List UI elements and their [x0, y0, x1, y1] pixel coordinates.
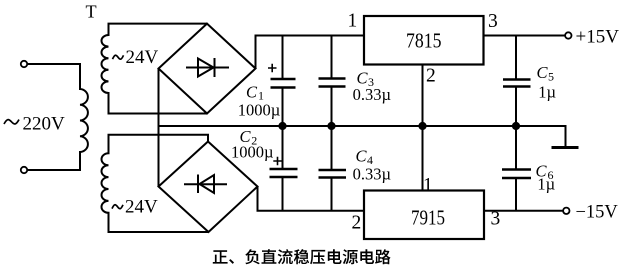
svg-text:1000µ: 1000µ [238, 101, 281, 120]
svg-text:24V: 24V [126, 47, 159, 68]
svg-text:1µ: 1µ [537, 175, 555, 194]
svg-text:+15V: +15V [576, 27, 620, 48]
svg-text:C: C [537, 63, 549, 82]
svg-text:1000µ: 1000µ [231, 143, 274, 162]
svg-text:2: 2 [352, 213, 362, 234]
svg-text:7915: 7915 [411, 206, 445, 230]
svg-text:5: 5 [548, 70, 554, 84]
svg-text:T: T [86, 2, 97, 22]
svg-text:0.33µ: 0.33µ [353, 165, 391, 184]
svg-text:2: 2 [426, 65, 436, 86]
svg-text:−15V: −15V [576, 203, 619, 223]
svg-text:3: 3 [488, 11, 498, 32]
svg-text:1µ: 1µ [538, 83, 556, 102]
svg-text:220V: 220V [23, 114, 66, 135]
svg-text:C: C [246, 82, 258, 101]
svg-text:1: 1 [423, 175, 433, 196]
svg-text:7815: 7815 [406, 29, 442, 53]
svg-text:24V: 24V [125, 197, 158, 218]
svg-text:0.33µ: 0.33µ [353, 85, 391, 104]
svg-text:3: 3 [491, 209, 501, 230]
svg-text:C: C [356, 147, 368, 166]
svg-text:1: 1 [348, 11, 358, 32]
